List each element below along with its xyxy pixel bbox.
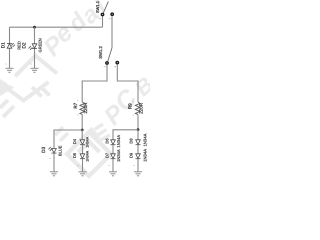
- svg-text:1N34A: 1N34A: [116, 135, 121, 148]
- watermark stroke fragments lower: [55, 127, 68, 141]
- diode D7: [111, 154, 116, 159]
- svg-text:SW1.1: SW1.1: [95, 0, 100, 13]
- ground under D9: [134, 172, 142, 176]
- wire from left contact down to top rail: [102, 16, 104, 27]
- svg-text:R9: R9: [128, 103, 133, 109]
- watermark text PC: [99, 72, 159, 131]
- ground under D5: [79, 172, 87, 176]
- contact left: [101, 13, 105, 17]
- wire SW1.2 right contact to R9: [117, 65, 138, 102]
- wire branch to D3: [54, 130, 82, 148]
- svg-text:BLUE: BLUE: [58, 145, 63, 156]
- switch SW1.2: [98, 46, 119, 68]
- switch SW1.1: [95, 0, 114, 27]
- wire D5 to ground: [82, 159, 84, 172]
- wire D3 to ground: [53, 153, 55, 172]
- resistor R7: [80, 102, 85, 114]
- svg-text:D8: D8: [129, 138, 134, 144]
- diode D6: [111, 140, 116, 145]
- wire D8 to D9: [137, 145, 139, 155]
- watermark chevron strokes upper-left: [0, 56, 57, 117]
- svg-text:D1: D1: [1, 42, 6, 48]
- svg-text:SW1.2: SW1.2: [98, 46, 103, 59]
- resistor R9: [135, 102, 140, 115]
- watermark diamond lower-middle: [67, 132, 111, 176]
- wire SW1.2 left contact to R7: [82, 65, 107, 102]
- diode D5: [80, 154, 85, 159]
- svg-text:1N34A: 1N34A: [143, 149, 148, 162]
- node junction D2 tap: [33, 26, 36, 29]
- diode D8: [136, 140, 141, 145]
- diode D9: [136, 154, 141, 159]
- svg-text:D7: D7: [104, 152, 109, 158]
- LED D2: [29, 44, 37, 50]
- svg-text:D6: D6: [104, 138, 109, 144]
- diode D4: [80, 140, 85, 145]
- svg-text:1N34A: 1N34A: [85, 136, 89, 148]
- ground under D7: [109, 172, 117, 176]
- ground under D2: [31, 68, 39, 72]
- svg-text:D9: D9: [129, 152, 134, 158]
- svg-text:1N34A: 1N34A: [143, 133, 148, 146]
- contact right: [115, 61, 119, 65]
- LED D1: [7, 43, 15, 48]
- svg-text:1N34A: 1N34A: [116, 149, 121, 162]
- svg-text:R7: R7: [73, 102, 78, 108]
- svg-text:1N34A: 1N34A: [85, 150, 89, 162]
- wire SW1.1 right contact down to SW1.2 lever: [111, 16, 113, 47]
- LED D3: [48, 147, 56, 153]
- svg-text:GREEN: GREEN: [37, 38, 42, 52]
- watermark text Pedal: [38, 0, 112, 62]
- ground under D1: [6, 68, 14, 72]
- wire junction down to D8: [137, 130, 139, 141]
- node junction below R7: [81, 129, 84, 132]
- node junction below R9: [137, 128, 140, 131]
- svg-text:220R: 220R: [138, 102, 143, 114]
- lever: [103, 1, 108, 12]
- wire D2 vertical: [34, 27, 36, 68]
- wire R7 bottom lead: [81, 114, 83, 130]
- wire D4 to D5: [82, 145, 84, 155]
- svg-text:D3: D3: [41, 146, 46, 152]
- lever: [108, 47, 112, 61]
- ground under D3: [50, 172, 58, 176]
- ground pin specks: [4, 63, 32, 65]
- wire D7 to ground: [112, 159, 114, 172]
- wire junction down to D4: [81, 130, 83, 140]
- svg-text:RED: RED: [16, 41, 21, 50]
- svg-text:220R: 220R: [83, 102, 88, 114]
- wire D9 to ground: [137, 159, 139, 172]
- contact left: [105, 61, 109, 65]
- watermark corner wedge: [0, 79, 14, 96]
- wire D6 to D7: [112, 145, 114, 155]
- wire R9 bottom lead: [137, 115, 139, 129]
- svg-text:D4: D4: [72, 138, 77, 144]
- wire top horizontal: [10, 26, 103, 28]
- svg-text:D2: D2: [22, 42, 27, 48]
- wire branch to D6: [113, 130, 138, 140]
- contact right: [110, 12, 114, 16]
- wire D1 vertical: [9, 27, 11, 68]
- svg-text:D5: D5: [72, 152, 77, 158]
